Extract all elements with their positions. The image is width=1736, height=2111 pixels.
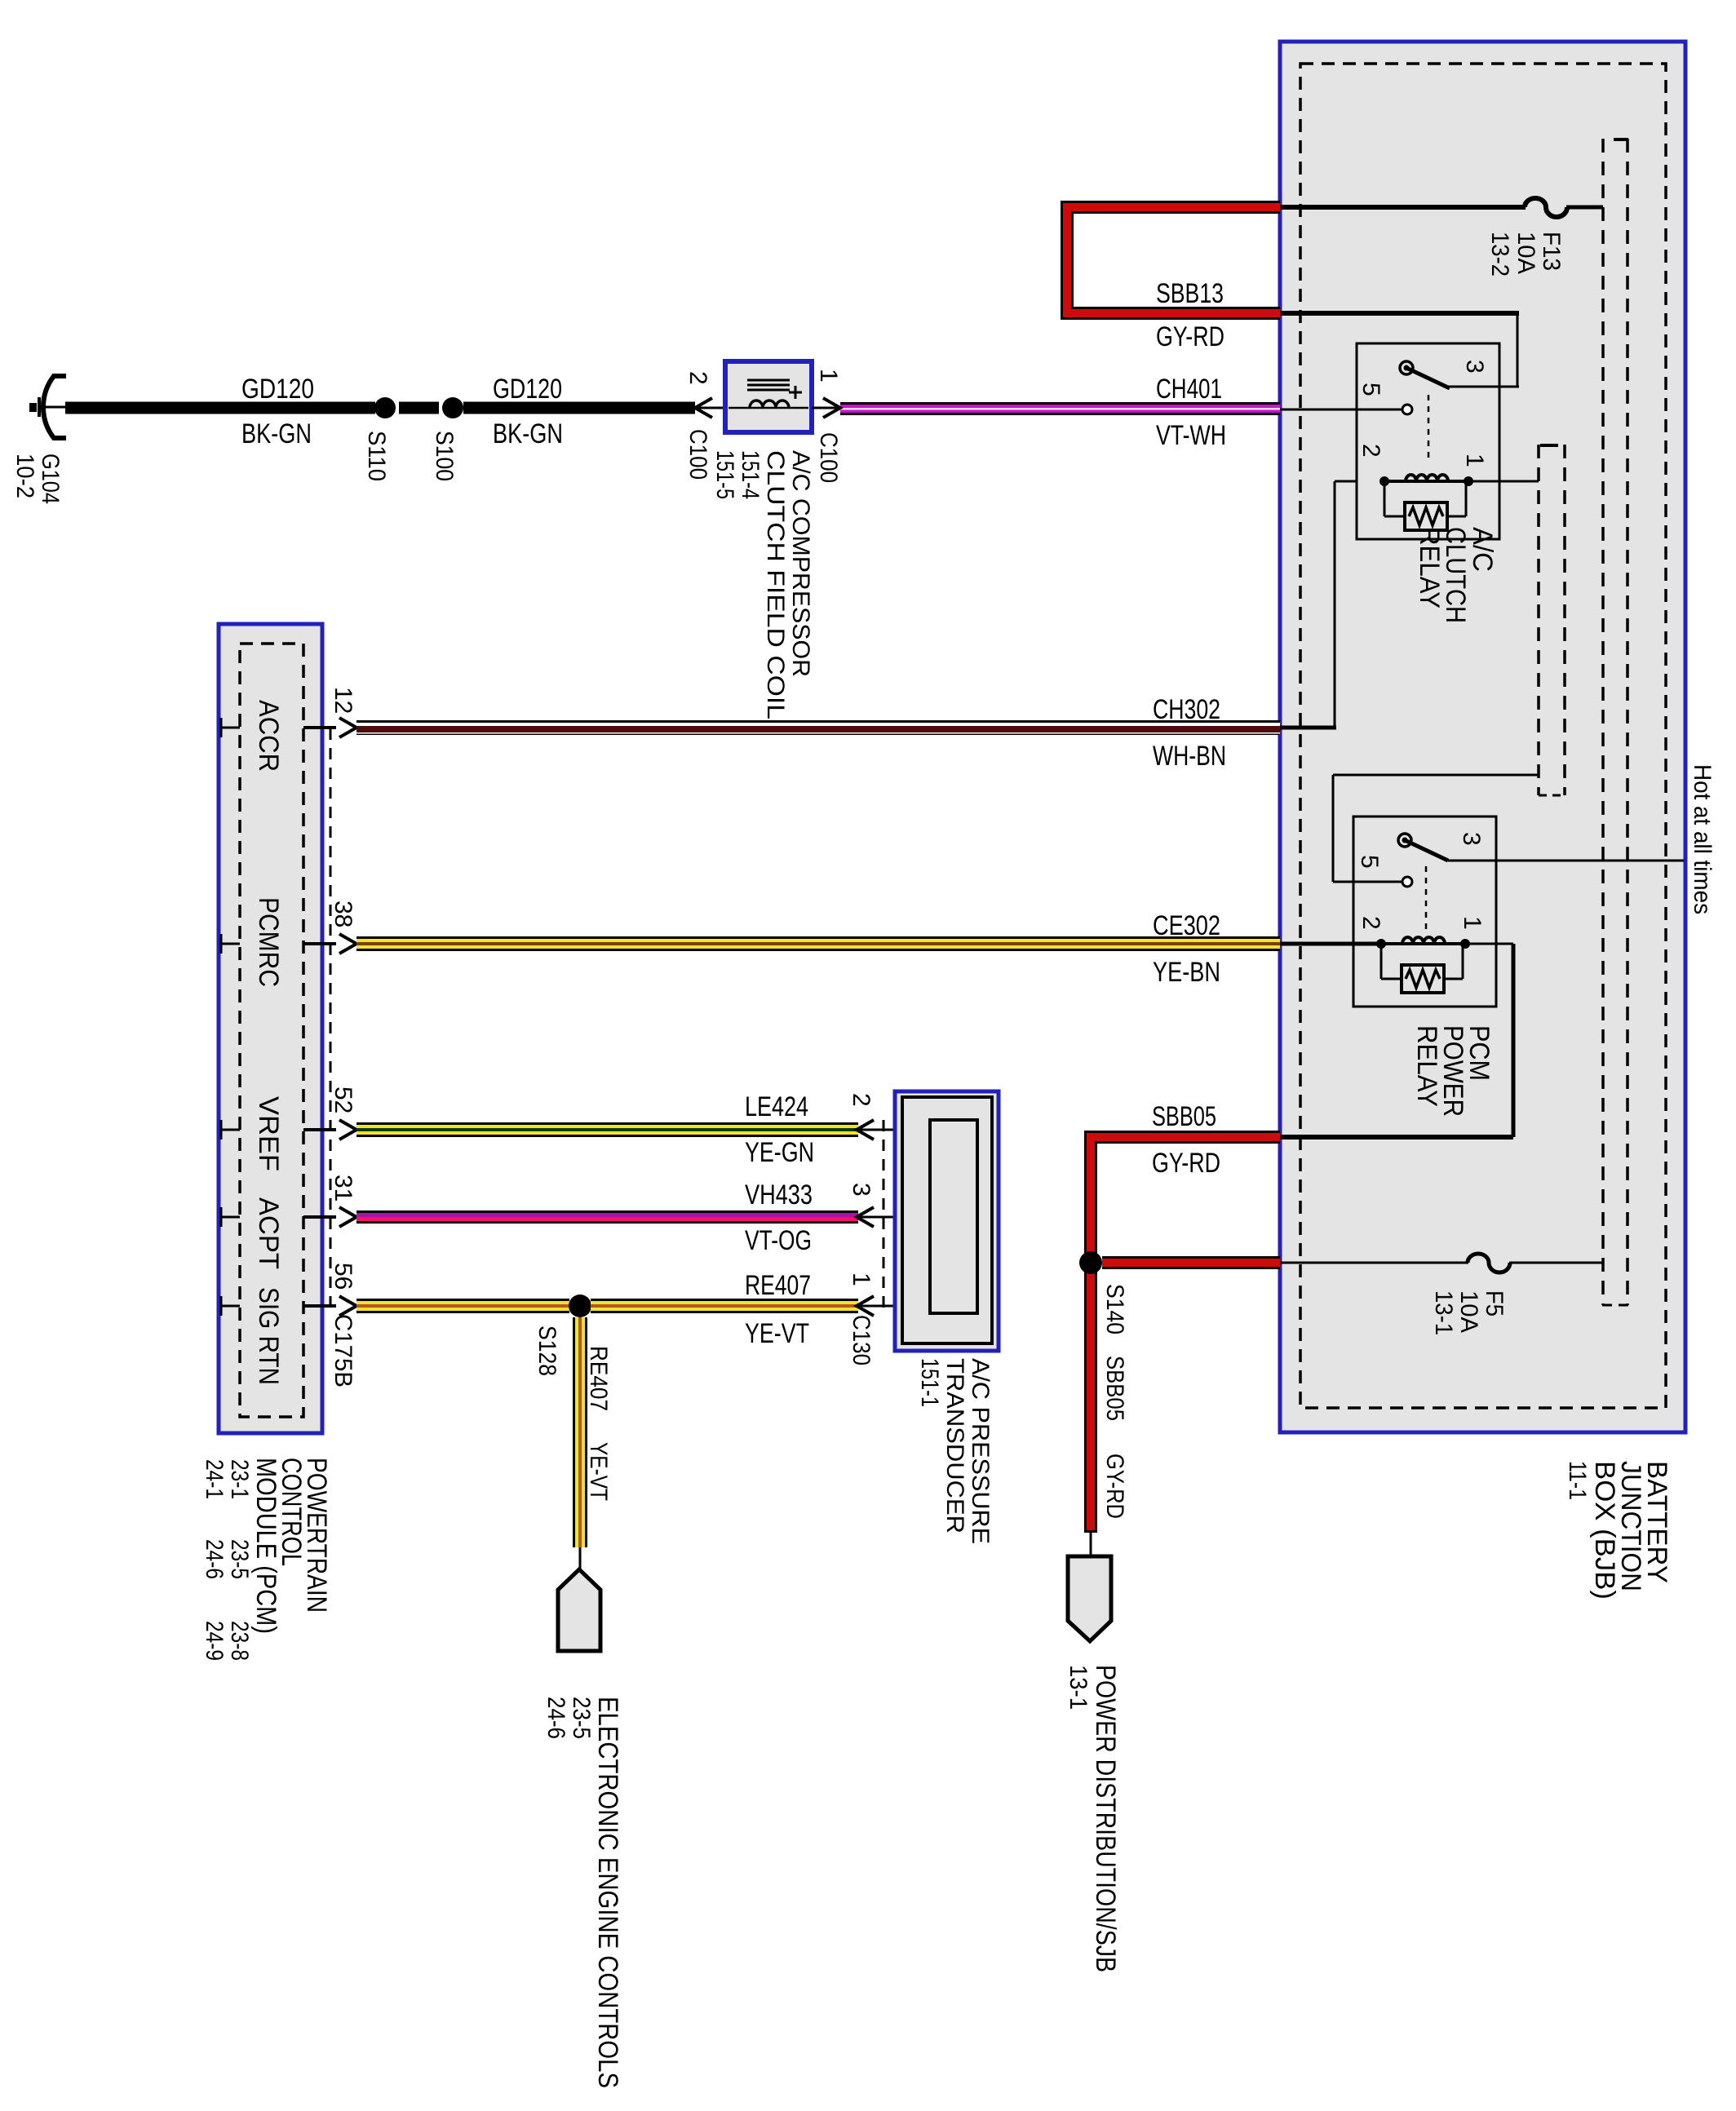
connector C175B dashed boundary (330, 728, 332, 1306)
fuse F13 feed wire (1280, 205, 1526, 210)
svg-text:31: 31 (330, 1175, 356, 1202)
svg-text:C130: C130 (848, 1315, 875, 1365)
svg-text:2: 2 (1357, 444, 1384, 458)
svg-text:GD120: GD120 (493, 374, 562, 405)
svg-text:VREF: VREF (253, 1096, 284, 1171)
svg-text:BOX (BJB): BOX (BJB) (1589, 1461, 1620, 1600)
PCM pin 56 stub (220, 1296, 223, 1316)
powertrain control module PCM box (219, 624, 322, 1433)
coil core lines (747, 379, 790, 382)
svg-text:1: 1 (1461, 454, 1488, 467)
wire CE302 YE-BN (356, 936, 1280, 951)
svg-text:SBB05: SBB05 (1152, 1101, 1216, 1132)
wire CH302 WH-BN (356, 720, 1280, 735)
wire SBB13 GY-RD (fused feed, U shape) (1067, 207, 1280, 313)
svg-text:CH302: CH302 (1153, 694, 1220, 725)
svg-text:23-5: 23-5 (226, 1539, 253, 1579)
relay K1 pin 2 wire to CH302 exit (1335, 480, 1357, 483)
svg-text:ACCR: ACCR (253, 700, 284, 772)
offpage arrow to power distribution SJB (1068, 1556, 1111, 1641)
svg-text:PCMRC: PCMRC (253, 897, 284, 987)
A/C compressor clutch field coil box (725, 361, 812, 432)
svg-text:13-2: 13-2 (1486, 232, 1513, 277)
svg-text:LE424: LE424 (745, 1091, 808, 1122)
svg-text:S128: S128 (534, 1325, 560, 1376)
svg-text:2: 2 (1357, 916, 1384, 930)
svg-text:VT-OG: VT-OG (745, 1225, 812, 1256)
svg-text:POWER DISTRIBUTION/SJB: POWER DISTRIBUTION/SJB (1090, 1665, 1121, 1972)
wire VH433 VT-OG (356, 1210, 858, 1224)
svg-text:23-8: 23-8 (226, 1621, 253, 1661)
wire RE407 vertical branch to EEC (573, 1317, 587, 1547)
svg-text:YE-VT: YE-VT (745, 1318, 809, 1349)
GD120 dash segment (399, 402, 439, 414)
svg-text:G104: G104 (37, 454, 64, 504)
svg-text:11-1: 11-1 (1564, 1461, 1591, 1500)
svg-text:S110: S110 (363, 431, 390, 481)
svg-text:1: 1 (1459, 916, 1486, 930)
wire RE407 YE-VT segment 2 (591, 1299, 858, 1313)
CE302 line inside BJB to relay K2 pin 2 (1280, 942, 1381, 946)
svg-text:CH401: CH401 (1156, 374, 1222, 405)
BJB internal dashed bus bar 1 (1601, 139, 1605, 1305)
svg-text:Hot at all times: Hot at all times (1689, 764, 1716, 914)
wire RE407 YE-VT segment 1 (356, 1299, 569, 1313)
svg-text:F5: F5 (1481, 1290, 1508, 1317)
relay K2 switch common (1398, 834, 1411, 847)
svg-text:23-5: 23-5 (568, 1697, 595, 1739)
wire SBB05 GY-RD horizontal and vertical (1091, 1137, 1280, 1533)
svg-text:C100: C100 (684, 429, 711, 480)
relay K2 pin 5 contact (1402, 877, 1412, 887)
svg-text:ELECTRONIC ENGINE CONTROLS: ELECTRONIC ENGINE CONTROLS (592, 1697, 623, 2088)
svg-text:SBB13: SBB13 (1156, 278, 1224, 309)
wire GD120 BK-GN segment 1 (65, 402, 375, 414)
relay K2 pin 5 wire to bus 2 (1333, 881, 1402, 883)
splice S100 (442, 397, 463, 418)
relay K1 switch common (1400, 361, 1413, 374)
svg-text:S140: S140 (1101, 1284, 1128, 1334)
svg-text:10A: 10A (1512, 232, 1539, 274)
svg-text:12: 12 (330, 687, 356, 714)
svg-text:151-5: 151-5 (711, 450, 738, 499)
svg-text:RE407: RE407 (585, 1346, 612, 1411)
fuse F5 (1468, 1254, 1510, 1272)
svg-text:24-6: 24-6 (201, 1539, 228, 1579)
A/C pressure transducer connector arrows (857, 1120, 874, 1140)
relay K2 parallel resistor (1380, 944, 1383, 979)
wire SBB05 from splice to fuse F5 (1102, 1256, 1280, 1269)
relay K2 coil (1381, 942, 1465, 945)
svg-text:VT-WH: VT-WH (1156, 420, 1226, 451)
CH401 line inside BJB to relay pin 5 (1280, 409, 1402, 411)
lead line to power distribution offpage arrow (1090, 1533, 1092, 1560)
svg-text:24-6: 24-6 (542, 1697, 569, 1739)
svg-text:24-1: 24-1 (201, 1459, 228, 1499)
connector C100 pin 1 arrow (812, 407, 840, 409)
svg-text:GY-RD: GY-RD (1156, 321, 1224, 352)
transducer inner element (930, 1120, 977, 1313)
svg-text:5: 5 (1356, 855, 1383, 869)
svg-text:BK-GN: BK-GN (241, 418, 312, 449)
svg-text:151-1: 151-1 (916, 1358, 943, 1407)
fuse F5 feed line inside BJB (1280, 1262, 1468, 1264)
relay K1 coil (1384, 480, 1468, 483)
relay K2 pin 3 wire to hot feed (1448, 860, 1684, 862)
svg-text:13-1: 13-1 (1430, 1290, 1457, 1335)
svg-text:3: 3 (848, 1183, 875, 1197)
svg-text:CE302: CE302 (1153, 910, 1220, 941)
svg-text:TRANSDUCER: TRANSDUCER (941, 1358, 968, 1533)
svg-text:52: 52 (330, 1086, 356, 1113)
svg-text:151-4: 151-4 (737, 450, 764, 499)
A/C pressure transducer box (895, 1091, 999, 1351)
PCM pin 38 stub (220, 934, 223, 954)
PCM inner dashed border (240, 644, 303, 1417)
wire LE424 YE-GN (356, 1122, 858, 1137)
svg-text:RELAY: RELAY (1411, 1025, 1442, 1107)
relay K1 pin 1 wire to bus 2 (1472, 480, 1539, 483)
relay K1 A/C clutch relay box (1357, 343, 1499, 539)
wire GD120 BK-GN segment 2 (463, 402, 695, 414)
svg-text:ACPT: ACPT (253, 1197, 284, 1269)
svg-text:F13: F13 (1538, 232, 1565, 271)
svg-text:GY-RD: GY-RD (1101, 1454, 1128, 1519)
splice S140 (1079, 1251, 1102, 1274)
svg-text:RE407: RE407 (745, 1270, 811, 1301)
svg-text:GY-RD: GY-RD (1152, 1148, 1220, 1179)
svg-text:2: 2 (684, 371, 711, 385)
svg-text:3: 3 (1461, 360, 1488, 374)
relay K2 switch arm (1405, 840, 1448, 861)
svg-text:GD120: GD120 (241, 374, 314, 405)
lead line to EEC offpage arrow (579, 1547, 582, 1573)
wire CH401 VT-WH from coil to relay (840, 402, 1280, 415)
svg-text:A/C COMPRESSOR: A/C COMPRESSOR (787, 450, 814, 677)
svg-text:YE-GN: YE-GN (745, 1137, 814, 1168)
relay K2 pin 1 wire to SBB05 exit (1469, 943, 1513, 945)
svg-text:SBB05: SBB05 (1101, 1356, 1128, 1421)
transducer connector dashed boundary (883, 1120, 885, 1313)
svg-text:RELAY: RELAY (1414, 527, 1445, 609)
svg-text:3: 3 (1458, 832, 1485, 846)
svg-text:CLUTCH FIELD COIL: CLUTCH FIELD COIL (762, 450, 789, 719)
ground G104 (43, 376, 66, 438)
BJB internal dashed bus bar 2 (1537, 445, 1540, 795)
svg-text:SIG RTN: SIG RTN (253, 1287, 284, 1385)
svg-text:YE-BN: YE-BN (1153, 957, 1220, 988)
svg-text:24-9: 24-9 (201, 1621, 228, 1661)
svg-text:38: 38 (330, 901, 356, 927)
BJB inner dashed border (1300, 64, 1666, 1408)
splice S110 (374, 397, 396, 418)
svg-text:56: 56 (330, 1263, 356, 1290)
svg-text:WH-BN: WH-BN (1153, 741, 1226, 772)
svg-text:2: 2 (848, 1093, 875, 1107)
svg-text:10-2: 10-2 (11, 454, 38, 498)
CH302 line inside BJB (1280, 726, 1336, 730)
svg-text:5: 5 (1357, 383, 1384, 396)
svg-text:S100: S100 (431, 431, 458, 481)
coil plus sign (789, 392, 802, 394)
fuse F13 (1525, 198, 1567, 217)
relay K1 switch arm (1406, 368, 1450, 388)
svg-text:C175B: C175B (330, 1314, 356, 1387)
svg-text:23-1: 23-1 (226, 1459, 253, 1499)
svg-text:BK-GN: BK-GN (493, 418, 563, 449)
coil winding (728, 407, 808, 409)
PCM pin 12 stub (220, 718, 223, 737)
relay K2 actuation dashed link (1425, 866, 1428, 930)
svg-text:VH433: VH433 (745, 1179, 813, 1210)
relay K2 PCM power relay box (1353, 817, 1496, 1007)
PCM pin 52 stub (220, 1120, 223, 1140)
svg-text:1: 1 (848, 1272, 875, 1286)
relay K1 parallel resistor (1384, 481, 1386, 516)
svg-text:C100: C100 (815, 432, 842, 483)
svg-text:YE-VT: YE-VT (585, 1442, 612, 1501)
connector C100 pin 2 arrow (695, 398, 712, 418)
splice S128 (569, 1294, 591, 1317)
offpage arrow to electronic engine controls (558, 1569, 600, 1651)
svg-text:A/C PRESSURE: A/C PRESSURE (967, 1358, 994, 1544)
SBB13 feed line inside BJB to relay contact (1280, 311, 1519, 316)
relay K1 pin 5 contact (1402, 405, 1412, 414)
battery junction box BJB outline (1280, 42, 1685, 1432)
PCM pin 31 stub (220, 1207, 223, 1227)
svg-text:10A: 10A (1455, 1290, 1482, 1333)
svg-text:1: 1 (815, 369, 842, 383)
svg-text:MODULE (PCM): MODULE (PCM) (250, 1458, 281, 1634)
relay K1 actuation dashed link (1428, 395, 1430, 463)
svg-text:13-1: 13-1 (1065, 1665, 1092, 1710)
